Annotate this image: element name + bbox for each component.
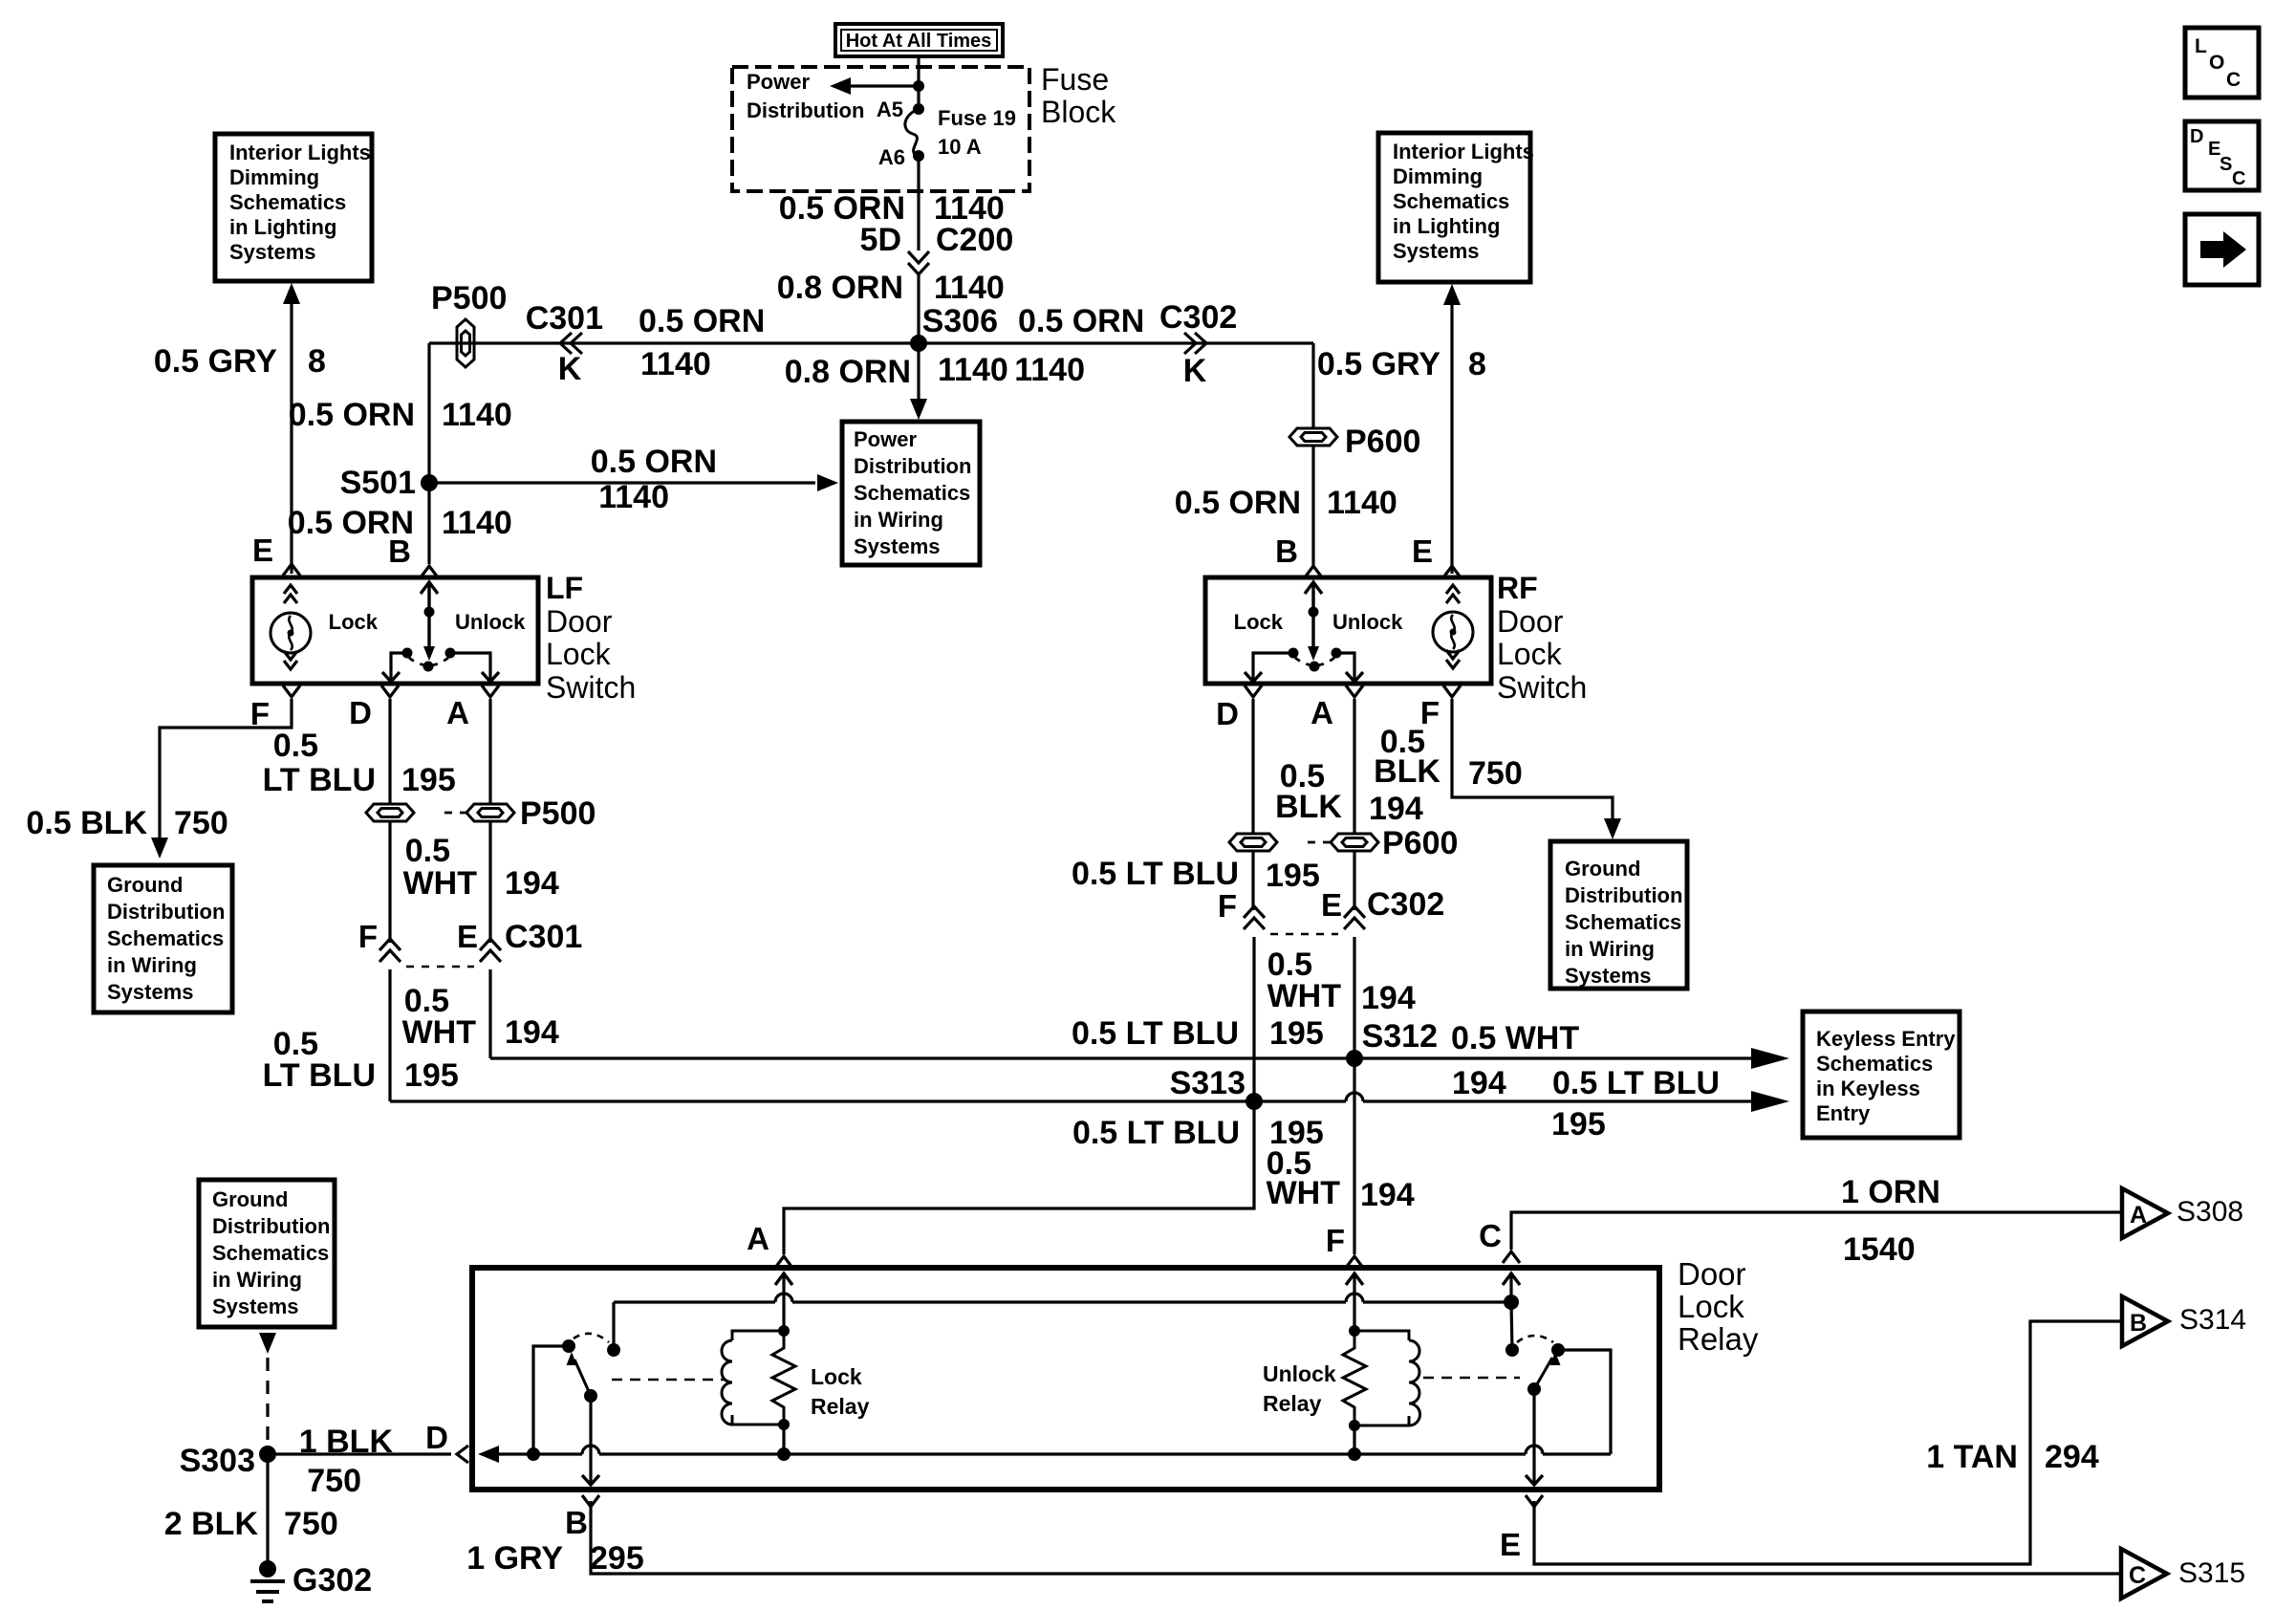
svg-text:P500: P500 — [520, 795, 596, 832]
svg-text:F: F — [358, 919, 378, 954]
Interior Lights Dimming box (right) — [1378, 133, 1530, 282]
svg-text:Block: Block — [1041, 95, 1116, 129]
arrow into interior lights right — [1443, 284, 1461, 305]
LOC legend box — [2185, 28, 2259, 98]
svg-text:0.5 BLK: 0.5 BLK — [26, 805, 147, 841]
svg-text:WHT: WHT — [403, 865, 478, 902]
svg-text:Unlock: Unlock — [455, 610, 526, 634]
svg-text:Lock: Lock — [811, 1364, 862, 1389]
svg-text:RF: RF — [1497, 571, 1538, 605]
wire 1 TAN to S314 — [1534, 1321, 2122, 1564]
unlock relay resistor — [1349, 1325, 1360, 1337]
svg-text:BLK: BLK — [1374, 753, 1440, 790]
wire P600 to RF B — [1311, 446, 1314, 566]
svg-text:Switch: Switch — [1497, 670, 1587, 705]
svg-text:195: 195 — [1266, 858, 1320, 894]
pin D chevron RF — [1245, 685, 1262, 697]
Fuse Block dashed outline — [732, 67, 1029, 191]
chevrons E C301 — [480, 950, 501, 962]
svg-text:Relay: Relay — [1678, 1321, 1759, 1357]
relay bottom bus with hops — [478, 1446, 499, 1463]
dashed C302 link — [1270, 933, 1338, 936]
svg-text:K: K — [558, 351, 582, 387]
svg-text:1140: 1140 — [938, 352, 1008, 388]
svg-text:F: F — [1326, 1223, 1345, 1258]
dashed unlock actuation link — [1423, 1377, 1520, 1380]
svg-text:E: E — [1500, 1527, 1521, 1562]
svg-text:0.5: 0.5 — [405, 833, 450, 869]
wire bus down to LF B — [427, 343, 430, 564]
wire S501 to power dist box — [429, 481, 815, 484]
Ground Distribution box (left) — [94, 865, 232, 1012]
svg-text:10 A: 10 A — [938, 135, 982, 159]
pin E chevron LF — [283, 564, 300, 576]
Ground Distribution box (lower left) — [199, 1180, 335, 1327]
LF door lock switch internals — [421, 582, 438, 594]
svg-text:1 ORN: 1 ORN — [1841, 1174, 1940, 1210]
arrow from ground box down — [259, 1333, 276, 1354]
splice S306 — [910, 335, 927, 352]
svg-text:1540: 1540 — [1843, 1231, 1916, 1268]
pin D chevron LF — [381, 685, 399, 697]
node A5 — [913, 103, 924, 115]
svg-text:S501: S501 — [340, 465, 416, 501]
svg-text:0.5 LT BLU: 0.5 LT BLU — [1552, 1065, 1720, 1101]
svg-text:Hot At All Times: Hot At All Times — [846, 31, 992, 52]
arrow 195 into keyless box — [1751, 1091, 1789, 1112]
svg-text:1140: 1140 — [1327, 485, 1397, 521]
relay lock-side switch — [562, 1339, 575, 1353]
svg-text:E: E — [252, 533, 273, 568]
dashed wire to S303 — [266, 1358, 269, 1446]
svg-text:194: 194 — [1361, 980, 1416, 1016]
svg-text:195: 195 — [1551, 1106, 1606, 1142]
svg-text:294: 294 — [2045, 1439, 2099, 1475]
svg-text:C302: C302 — [1159, 299, 1237, 336]
svg-text:S313: S313 — [1170, 1065, 1245, 1101]
wire bus down to RF B — [1311, 343, 1314, 428]
arrow to power distribution — [830, 77, 851, 95]
svg-text:0.5 ORN: 0.5 ORN — [1018, 303, 1144, 339]
svg-text:F: F — [1218, 888, 1237, 924]
Door Lock Relay box — [472, 1268, 1659, 1490]
svg-text:1140: 1140 — [934, 270, 1005, 306]
wire RF A down — [1353, 699, 1355, 834]
svg-text:Door: Door — [1678, 1256, 1746, 1292]
svg-text:Unlock: Unlock — [1263, 1361, 1336, 1386]
connector C301 chevrons — [560, 333, 572, 354]
dashed P600 link — [1308, 841, 1330, 844]
pin D chevron relay — [457, 1446, 468, 1463]
svg-text:0.5 ORN: 0.5 ORN — [289, 397, 415, 433]
svg-text:K: K — [1183, 353, 1207, 389]
svg-text:C301: C301 — [505, 919, 582, 955]
svg-text:B: B — [565, 1505, 588, 1540]
relay pin C internals — [1503, 1273, 1520, 1285]
svg-text:195: 195 — [1269, 1015, 1324, 1052]
pin C chevron relay — [1503, 1251, 1520, 1263]
svg-text:0.5 GRY: 0.5 GRY — [1317, 346, 1440, 382]
svg-text:Fuse: Fuse — [1041, 62, 1109, 97]
chevrons F C302 — [1244, 918, 1265, 929]
splice S303 — [259, 1446, 276, 1463]
relay pin E internals — [1532, 1389, 1535, 1485]
wire LF D down — [388, 699, 391, 804]
pin E chevron relay — [1526, 1495, 1543, 1507]
pin B chevron relay — [582, 1495, 599, 1507]
svg-text:195: 195 — [404, 1057, 459, 1094]
svg-text:0.5 ORN: 0.5 ORN — [1175, 485, 1301, 521]
svg-text:0.5 GRY: 0.5 GRY — [154, 343, 277, 380]
wire 1 GRY to S315 — [591, 1501, 2121, 1574]
RF key cylinder symbol — [1433, 612, 1473, 652]
wire 194 down — [488, 969, 491, 1058]
wire LF A down — [488, 699, 491, 804]
svg-text:0.5 LT BLU: 0.5 LT BLU — [1072, 1115, 1240, 1151]
svg-text:C: C — [1479, 1218, 1502, 1253]
svg-text:5D: 5D — [860, 222, 901, 258]
svg-text:750: 750 — [307, 1463, 361, 1499]
svg-text:1 TAN: 1 TAN — [1926, 1439, 2018, 1475]
off-page connector C S315 — [2121, 1549, 2167, 1599]
svg-text:E: E — [457, 919, 478, 954]
svg-text:C302: C302 — [1367, 886, 1444, 923]
svg-text:194: 194 — [505, 865, 559, 902]
wire LF E up to interior lights — [290, 304, 292, 574]
svg-text:Lock: Lock — [1497, 637, 1563, 671]
svg-text:1140: 1140 — [640, 346, 711, 382]
wire 2 BLK to G302 — [266, 1454, 269, 1569]
relay pin A internals — [775, 1273, 792, 1285]
svg-text:A: A — [747, 1221, 769, 1256]
RF Door Lock Switch box — [1205, 577, 1491, 684]
pin A chevron LF — [482, 685, 499, 697]
dashed C301 link — [406, 966, 474, 968]
svg-text:P600: P600 — [1382, 825, 1458, 861]
LF key cylinder symbol — [271, 613, 311, 653]
wire 195 to relay A — [784, 1101, 1254, 1254]
main bus wire 1140 — [429, 341, 1313, 344]
connector C302 chevrons — [1195, 333, 1206, 354]
svg-text:E: E — [1321, 887, 1342, 923]
svg-text:194: 194 — [1360, 1177, 1415, 1213]
svg-text:LF: LF — [546, 571, 583, 605]
chevrons F C301 — [379, 950, 401, 962]
svg-text:1140: 1140 — [598, 479, 669, 515]
svg-text:0.8 ORN: 0.8 ORN — [777, 270, 903, 306]
svg-text:E: E — [1412, 533, 1433, 569]
svg-text:B: B — [2130, 1310, 2147, 1337]
svg-text:S306: S306 — [922, 303, 998, 339]
svg-text:1140: 1140 — [442, 505, 512, 541]
wire unlock branch right — [1558, 1350, 1611, 1454]
connector P500 right half — [466, 804, 514, 821]
svg-text:Door: Door — [546, 604, 613, 639]
wire 1 BLK to S303 — [268, 1452, 451, 1455]
svg-text:D: D — [2190, 126, 2203, 147]
DESC legend box — [2185, 121, 2259, 190]
svg-text:P500: P500 — [431, 280, 507, 316]
wire lock common branch — [533, 1346, 569, 1454]
LF Door Lock Switch box — [252, 577, 538, 684]
svg-text:Lock: Lock — [1678, 1289, 1744, 1324]
wire LF A to C301 — [488, 821, 491, 943]
wire RF E up to interior lights — [1450, 304, 1453, 574]
svg-text:BLK: BLK — [1275, 789, 1342, 825]
Power Distribution Schematics box — [842, 422, 980, 565]
svg-text:Fuse 19: Fuse 19 — [938, 106, 1016, 130]
svg-text:Relay: Relay — [1263, 1391, 1322, 1416]
relay pin B internals — [589, 1396, 592, 1485]
chevrons E C302 — [1344, 918, 1365, 929]
dashed P500 link — [444, 812, 466, 815]
svg-text:C: C — [2129, 1562, 2146, 1589]
svg-text:S: S — [2220, 154, 2232, 175]
svg-text:194: 194 — [505, 1014, 559, 1051]
svg-text:8: 8 — [308, 343, 326, 380]
wire F C302 to S313 — [1252, 937, 1255, 1101]
Hot At All Times box — [835, 24, 1003, 56]
svg-text:WHT: WHT — [1267, 1175, 1341, 1211]
wire 195 to keyless with hop — [390, 1099, 1346, 1102]
svg-text:C200: C200 — [936, 222, 1013, 258]
svg-text:0.5 LT BLU: 0.5 LT BLU — [1072, 1015, 1239, 1052]
relay unlock-side switch — [1505, 1343, 1519, 1357]
svg-text:S303: S303 — [180, 1443, 255, 1479]
pin B chevron RF — [1305, 566, 1322, 577]
pin E chevron RF — [1443, 566, 1461, 577]
svg-text:194: 194 — [1369, 791, 1423, 827]
Keyless Entry Schematics box — [1803, 1012, 1960, 1138]
svg-text:1 BLK: 1 BLK — [299, 1424, 394, 1460]
svg-text:0.5: 0.5 — [273, 728, 318, 764]
svg-text:1 GRY: 1 GRY — [466, 1540, 563, 1577]
svg-text:295: 295 — [590, 1540, 644, 1577]
svg-text:A: A — [1310, 695, 1333, 730]
wire C200 to S306 — [917, 275, 920, 343]
connector P500 in-line — [457, 319, 474, 367]
off-page connector A S308 — [2122, 1188, 2168, 1238]
arrow into ground box 1 — [151, 838, 168, 859]
wire RF F to ground — [1452, 699, 1613, 818]
svg-text:0.5 LT BLU: 0.5 LT BLU — [1072, 856, 1239, 892]
svg-text:A: A — [2130, 1202, 2147, 1229]
wire 195 down — [388, 969, 391, 1101]
node A6 — [913, 150, 924, 162]
arrow into power dist box — [817, 474, 838, 491]
splice S501 — [421, 474, 438, 491]
pin B chevron LF — [421, 566, 438, 577]
svg-text:B: B — [388, 533, 411, 569]
junction C node — [1504, 1295, 1519, 1310]
wire fuse feed — [917, 56, 920, 109]
svg-text:P600: P600 — [1345, 424, 1420, 460]
svg-text:1140: 1140 — [1014, 352, 1085, 388]
svg-text:WHT: WHT — [402, 1014, 477, 1051]
dashed lock actuation link — [612, 1379, 725, 1382]
svg-text:A: A — [446, 695, 469, 730]
lock relay coil — [732, 1331, 784, 1340]
ground G302 symbol — [259, 1560, 276, 1577]
svg-text:1140: 1140 — [442, 397, 512, 433]
lock relay resistor — [778, 1325, 790, 1337]
svg-text:C: C — [2232, 168, 2245, 189]
wire E C302 to S312 — [1353, 937, 1355, 1058]
svg-text:750: 750 — [1468, 755, 1523, 792]
connector C200 chevrons — [908, 251, 929, 263]
RF door lock switch internals — [1305, 582, 1322, 594]
off-page connector B S314 — [2122, 1296, 2168, 1346]
arrow into ground box 3 — [1604, 818, 1621, 839]
junction at A5 feed — [913, 80, 924, 92]
svg-text:195: 195 — [401, 762, 456, 798]
wire 194 to keyless — [490, 1056, 1780, 1059]
arrow 194 into keyless box — [1751, 1048, 1789, 1069]
wire RF D down — [1251, 699, 1254, 834]
svg-text:0.8 ORN: 0.8 ORN — [785, 354, 911, 390]
arrow into power distribution box — [910, 399, 927, 420]
connector P600 left half — [1229, 834, 1277, 851]
svg-text:0.5 ORN: 0.5 ORN — [591, 444, 717, 480]
svg-text:0.5 ORN: 0.5 ORN — [639, 303, 765, 339]
svg-text:S312: S312 — [1362, 1018, 1438, 1055]
wire LF D to C301 — [388, 821, 391, 943]
fuse F19 symbol — [905, 109, 919, 156]
wire LF F to ground — [160, 699, 292, 838]
svg-text:Lock: Lock — [1234, 610, 1284, 634]
svg-text:194: 194 — [1452, 1065, 1506, 1101]
svg-text:D: D — [1216, 696, 1239, 731]
wire lock contact LF — [391, 653, 407, 680]
svg-text:LT BLU: LT BLU — [263, 762, 376, 798]
svg-text:2 BLK: 2 BLK — [164, 1506, 259, 1542]
wire RF D to C302 — [1251, 851, 1254, 910]
wire 1 ORN to S308 — [1511, 1212, 2122, 1250]
wire unlock NC contact — [1511, 1302, 1512, 1350]
svg-text:Door: Door — [1497, 604, 1564, 639]
svg-text:A5: A5 — [877, 98, 903, 121]
wire S306 down — [917, 343, 920, 412]
svg-text:Lock: Lock — [546, 637, 612, 671]
svg-text:C301: C301 — [526, 300, 603, 337]
svg-text:Switch: Switch — [546, 670, 636, 705]
pin F chevron RF — [1443, 685, 1461, 697]
wire unlock relay to bottom bus — [1353, 1425, 1355, 1454]
svg-text:8: 8 — [1468, 346, 1486, 382]
splice S312 — [1346, 1050, 1363, 1067]
connector P600 in-line — [1289, 428, 1337, 446]
svg-text:Unlock: Unlock — [1332, 610, 1403, 634]
legend arrow — [2200, 231, 2246, 268]
Ground Distribution box (right) — [1550, 841, 1687, 989]
svg-text:Relay: Relay — [811, 1394, 870, 1419]
svg-text:S308: S308 — [2177, 1196, 2243, 1228]
arrow legend box — [2185, 214, 2259, 285]
svg-text:L: L — [2195, 35, 2207, 57]
svg-text:G302: G302 — [292, 1562, 372, 1599]
svg-text:D: D — [425, 1420, 448, 1455]
wire RF A to C302 — [1353, 851, 1355, 910]
svg-text:S315: S315 — [2178, 1557, 2245, 1589]
wire power distribution branch — [841, 84, 919, 87]
pin A chevron RF — [1346, 685, 1363, 697]
wire unlock contact RF — [1336, 653, 1354, 680]
svg-text:S314: S314 — [2179, 1304, 2246, 1336]
pin F chevron LF — [283, 685, 300, 697]
wire lock contact RF — [1253, 653, 1293, 680]
svg-text:750: 750 — [174, 805, 228, 841]
svg-text:C: C — [2226, 69, 2241, 91]
wire 194 to relay F — [1353, 1058, 1355, 1254]
splice S313 — [1245, 1093, 1263, 1110]
svg-text:0.5 WHT: 0.5 WHT — [1451, 1020, 1579, 1056]
svg-text:Lock: Lock — [329, 610, 379, 634]
svg-text:750: 750 — [284, 1506, 338, 1542]
wire lock relay to bottom bus — [782, 1425, 785, 1454]
unlock relay coil — [1354, 1331, 1409, 1340]
connector P500 left half — [366, 804, 414, 821]
pin A chevron relay — [775, 1256, 792, 1268]
relay pin F internals — [1346, 1273, 1363, 1285]
svg-text:B: B — [1275, 533, 1298, 569]
svg-text:D: D — [349, 695, 372, 730]
arrow into interior lights left — [283, 283, 300, 304]
Interior Lights Dimming box (left) — [215, 134, 372, 281]
wire unlock contact LF — [450, 653, 490, 680]
connector P600 right half — [1331, 834, 1378, 851]
wire A6 down — [917, 156, 920, 250]
svg-text:WHT: WHT — [1267, 978, 1342, 1014]
svg-text:LT BLU: LT BLU — [263, 1057, 376, 1094]
pin F chevron relay — [1346, 1256, 1363, 1268]
relay internal bus with hops — [614, 1300, 775, 1303]
wire lock NO contact up — [612, 1302, 615, 1350]
svg-text:O: O — [2209, 52, 2224, 74]
svg-text:A6: A6 — [878, 145, 905, 169]
